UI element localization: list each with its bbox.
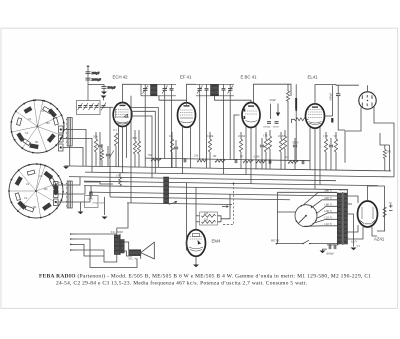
resistor R diode load [239,139,242,152]
wire EM4 cathode [195,256,197,264]
terminal lead 3 [71,243,77,245]
tube EM4 tuning indicator envelope [187,230,206,257]
resistor R1 divider [279,139,282,152]
capacitor C k2 [174,147,178,149]
capacitor 200pF [86,72,91,74]
electrolytic C filter [389,204,393,210]
svg-text:1M: 1M [204,212,208,215]
IF transformer T1 bottom rail [141,95,176,97]
T2 trimmer right [228,84,234,96]
wire Ra b [269,149,271,169]
wire R AF load bottom [287,101,289,161]
wire S2 row3 lead [58,192,90,202]
svg-text:125 V: 125 V [324,215,333,219]
resistor R AVC1 [151,158,161,161]
junction selector contact [310,225,312,227]
resistor R k1 [133,141,136,154]
wire S2 row1 lead [58,177,80,185]
wire R k1 top [134,130,136,141]
svg-text:200pF: 200pF [92,71,100,75]
drum S1 coil L7 [17,133,24,142]
speaker voice coil [129,250,141,256]
tube ECH42 envelope [113,103,132,127]
ground main bus [63,166,69,169]
wire EF41 plate to T2 [187,84,197,103]
wire heater run [341,190,348,193]
socket pins [362,95,373,107]
junction selector contact [316,212,318,214]
wire S1 row1 lead [63,130,86,167]
junction selector contact [296,220,298,222]
capacitor C osc pair [89,193,93,195]
drum S2 spoke 3 [36,191,59,205]
wire R ant bot [115,146,117,167]
signal arrow f [222,206,229,208]
drum S2 spoke 7 [19,170,36,191]
wire R sg2 b [209,152,211,168]
wire to 500pF cap [88,85,104,87]
drum S2 coil L7 [15,193,20,201]
wire Rop a [101,144,103,150]
ground osc b [102,217,108,220]
svg-text:M2: M2 [44,187,48,191]
ground PSU centre tap [351,248,357,251]
wire C mains stub [329,244,331,245]
wire ECH42 osc grid corner [132,116,153,178]
wire socket right drop [374,107,394,177]
wire HT center tap [348,214,354,247]
wire R 1M top [119,173,121,178]
wire C k1 wire2 [99,148,101,167]
wire Cc a [294,138,296,144]
wire Cc b [294,148,296,170]
wire speaker cone return [140,253,142,259]
svg-text:C3: C3 [39,174,43,178]
wire 600pF top [337,85,339,94]
drum S2 coil L6 [18,201,26,209]
svg-text:100k: 100k [207,134,214,138]
ground below 500pF [101,92,107,95]
wire ECH42 g3 corner [132,111,156,173]
resistor R surge [383,207,386,217]
resistor R stopper [334,139,337,152]
drum S1 coil L2 [48,109,56,117]
wire osc link pair [84,182,113,184]
svg-text:1M: 1M [263,134,268,138]
wire terminal 2 lead [77,239,138,268]
power transformer primary winding [337,193,341,244]
wire T1 left leg [140,84,142,96]
wire antenna bus into drum S1 [87,85,89,101]
wire R sg1 bot [138,154,140,167]
svg-text:1M: 1M [204,218,208,221]
drum S2 coil L8 [15,177,22,186]
T2 capacitor right [222,84,226,96]
IF transformer T2 bottom rail [196,95,234,97]
drum S1 coil L3 [53,117,58,125]
resistor R osc padder [100,150,103,160]
wire R osc top [95,132,97,139]
junction padder [90,191,92,193]
svg-text:5000: 5000 [88,198,94,201]
wire AVC bus [85,172,394,177]
wire EM4 R feed [221,194,230,219]
svg-text:2000pF: 2000pF [92,77,102,81]
wire EF41 screen drop [190,126,192,168]
junction switch contact a [302,243,303,244]
junction mains terminal [276,243,278,245]
junction dashed tap [233,183,235,185]
antenna terminal [87,66,90,69]
svg-text:C3: C3 [41,109,45,113]
wire Ck3 b [330,148,332,170]
wire rectifier filament a [348,227,364,239]
capacitor C byp4 [302,160,304,164]
wire Cdet b [261,148,263,169]
AVC arrow head [276,113,280,117]
tube ECH42 electrodes [116,105,130,124]
drum S1 spoke 7 [16,111,38,126]
bandswitch S1 wafer shaft [66,118,72,147]
capacitor AF bypass [275,122,279,124]
svg-text:C1: C1 [26,182,30,186]
junction selector contact [301,205,303,207]
drum S2 coil L3 [54,186,58,194]
electrolytic cathode capacitor EL41 [331,118,333,123]
tube EBC41 electrodes [244,105,258,122]
drum S2 coil L1 [44,171,53,179]
potentiometer P1 wiper arrow [169,201,177,204]
junction electrolytic [295,109,297,111]
svg-text:110 V: 110 V [324,222,333,226]
trimmer CT3 [89,103,94,110]
wire T2 leg c [223,96,225,174]
tube EL41 electrodes [308,106,322,124]
AVC arrow lead [277,104,279,114]
wire terminal 3 lead [77,244,105,256]
wire EM4 R left b [196,221,200,223]
wire antenna down lead [87,70,89,85]
svg-text:24-54, C2 29-84 e C3 13,5-23.: 24-54, C2 29-84 e C3 13,5-23. Media freq… [56,279,307,286]
wire Rdl b [240,152,242,169]
wire socket left drop [345,108,361,163]
T2 capacitor left [205,84,209,96]
capacitor C padder [106,154,110,156]
wire C osc b [90,196,92,199]
padder capacitor box [85,196,99,208]
wire Rdl a [240,132,242,139]
wire ground bus [65,166,392,171]
wire rectifier filament b [372,227,377,236]
wire EBC41 diode drop [245,127,247,175]
resistor R det [256,160,266,163]
wire bus 8 partial [127,203,232,205]
coil drum S2 outline [9,164,63,218]
wire C k2 a [175,140,177,146]
wire right edge corner [380,133,389,145]
wire S2 row2 lead [58,186,85,194]
tube AZ41 electrodes [360,207,375,224]
trimmer CT5 [101,103,106,111]
svg-text:50k: 50k [93,135,98,139]
wire grid stopper left [292,119,295,123]
svg-text:25k: 25k [194,155,199,158]
wire Rs b [335,152,337,170]
mains switch [303,240,337,243]
svg-text:0,1: 0,1 [286,156,290,159]
drum S1 spoke 5 [22,127,37,149]
svg-text:EL41: EL41 [308,75,319,80]
wire HT bus [69,177,336,181]
wire EM4 grid feed [195,187,197,229]
wire mains lead [277,243,304,245]
output transformer T.U. primary winding [114,235,119,255]
tube AZ41 rectifier envelope [358,201,378,227]
drum S1 spoke 8 [34,100,38,126]
capacitor C coup [293,145,297,147]
coil drum S1 outline [11,100,64,153]
wire Rop b [101,160,103,166]
junction speaker terminal 4 [70,249,72,251]
wire bus 4 [84,181,378,186]
svg-text:0,5M: 0,5M [254,155,260,158]
drum S1 spoke 1 [38,101,44,127]
wire ECH42 screen drop [122,126,124,172]
svg-text:170: 170 [323,134,328,138]
capacitor C byp1 [184,158,186,162]
resistor grid stopper EL41 [295,118,306,121]
capacitor 2000pF [86,78,91,80]
svg-text:FEBA RADIO (Partenoni) - Modd.: FEBA RADIO (Partenoni) - Modd. E/505 B, … [39,272,371,279]
svg-text:0,1: 0,1 [240,155,244,158]
wire component rail [145,158,310,161]
resistor R AVC4 [243,160,253,163]
potentiometer P1 volume control [164,177,169,204]
drum S1 spoke 6 [12,127,38,133]
wire grid stopper to EL41 [306,118,309,120]
svg-text:M1: M1 [35,140,39,144]
coil drum S1 hub [36,125,38,127]
resistor R k EL41 [324,139,327,152]
drum S2 spoke 6 [9,190,36,192]
resistor R2 divider [283,136,286,149]
wire terminal 4 lead [77,250,105,256]
wire Ra a [269,130,271,136]
wire EBC41 grid stub [234,115,240,160]
junction speaker terminal 3 [70,244,72,246]
wire R k2 b [171,152,173,168]
resistor R sg1 [137,141,140,154]
wire R sg2 a [209,132,211,139]
wire HT secondary top [348,196,359,203]
drum S2 sector labels [24,174,48,209]
wire TU primary top [117,203,128,235]
tube EBC41 envelope [242,103,260,128]
wire HT secondary bottom [348,225,359,232]
wire tap 220 V [311,200,337,208]
svg-text:100pF 50pF: 100pF 50pF [92,202,105,205]
wire C mains gnd [323,249,328,250]
svg-text:1000pF: 1000pF [326,253,335,256]
capacitor C k1 [98,145,102,147]
drum S1 coil L4 [47,134,55,142]
capacitor AVC 50pF lead [270,104,272,120]
wire right edge drop [388,145,390,171]
tube EF41 electrodes [180,103,193,123]
svg-text:EF 41: EF 41 [180,75,192,80]
wire Rs a [335,132,337,139]
wire R 1M bot [119,185,121,188]
wire ECH42 osc drop [126,126,128,158]
resistor R AVC3 [215,159,225,162]
trimmer CT2 [83,103,88,110]
wire C k2 b [175,150,177,168]
drum S2 spoke 1 [36,166,45,191]
wire tap 160 V [317,206,338,213]
drum S2 coil L9 [27,170,35,175]
wire cap to ground [103,88,105,91]
wire T2 leg a [199,96,201,159]
junction selector contact [311,205,313,207]
wire Cp a [107,146,109,153]
drum S1 spoke 2 [38,115,62,126]
wire Rg b [265,152,267,169]
wire EM4 side [187,183,190,250]
wire electrolytic top [295,84,297,98]
T1 trimmer right [162,84,168,96]
wire R AF load top [287,84,289,91]
svg-text:500pF: 500pF [108,86,116,90]
coil drum S2 hub [35,190,37,192]
T1 trimmer left [143,84,149,96]
svg-text:50k: 50k [148,154,153,157]
svg-text:10000: 10000 [273,125,280,128]
wire bus 7 partial [110,197,290,200]
drum S1 coil L9 [24,107,32,113]
resistor pair box EM4 [200,212,218,225]
electrolytic filter capacitor [295,98,297,109]
voltage selector arm [298,216,306,224]
drum S2 spoke 8 [36,164,41,191]
wire R load top [384,145,386,150]
speaker cone [141,242,155,259]
drum S1 spoke 4 [38,127,47,152]
wire R sg1 top [138,130,140,141]
junction speaker terminal 1 [70,233,72,235]
drum S2 rim contacts [8,163,64,218]
wire EF41 cathode drop [182,126,184,174]
wire selector left feed [278,192,338,212]
bandswitch S1 contact comb [59,126,64,151]
wire EBC41 cathode drop [250,128,252,184]
drum S2 spoke 2 [36,182,61,191]
power transformer secondary winding [344,193,348,244]
wire EL41 screen link [325,115,333,117]
drum S1 coil L6 [23,139,31,146]
tube EL41 envelope [306,104,325,128]
wire electrolytic bottom [295,109,297,160]
power transformer core [341,192,344,245]
resistor R ant [114,133,117,146]
trimmer CT4 [94,103,99,110]
wire S1 shaft lead [69,146,71,166]
wire R osc bot [95,152,97,166]
resistor R load [383,150,386,159]
resistor R anode EBC [268,136,271,149]
trimmer osc [109,151,114,159]
output transformer T.U. secondary winding [121,240,125,254]
wire C osc a [90,186,92,192]
ground at trimmer bank [101,96,107,99]
svg-text:600pF: 600pF [329,93,333,101]
drum S2 spoke 4 [36,191,41,218]
svg-text:300: 300 [132,136,137,140]
svg-text:5000pF: 5000pF [263,125,271,128]
shielded lead to EM4 resistors (dashed) [222,183,234,224]
wire Cp b [107,157,109,167]
wire T1 to EF41 grid [159,96,187,103]
svg-text:1M: 1M [387,151,391,154]
resistor R sg2 [208,139,211,152]
wire Rd2 a [284,130,286,136]
wire osc gnd a [80,202,82,212]
drum S1 sector labels [25,109,50,144]
wire osc gnd b [104,197,106,215]
wire T2 secondary to EBC41 [215,96,252,103]
wire Rd1 b [280,152,282,169]
wire 600pF bottom [338,96,345,130]
wire ECH42 grid [100,106,113,108]
wire Rk3 a [325,132,327,139]
wire Rd1 a [280,132,282,139]
IF transformer T2 top rail [196,83,234,85]
tube socket top view (pilot/valve socket) [359,92,376,109]
svg-text:EM4: EM4 [212,239,221,244]
wire heater bus [84,186,341,190]
wire EL41 grid drop [309,127,311,169]
capacitor C k EL41 [329,145,333,147]
wire long drop A [130,96,132,203]
wire socket feed [332,85,334,116]
drum S1 coil L1 [43,106,52,113]
wire EM4 R left a [196,215,200,217]
wire EL41 screen drop [319,127,321,185]
junction speaker terminal 2 [70,238,72,240]
wire bus 6 [89,192,341,196]
wire S1 row3 lead [63,148,83,167]
capacitor C byp3 [269,159,271,163]
resistor R AVC2 [197,159,207,162]
svg-text:50: 50 [334,134,338,138]
wire Rg a [265,132,267,139]
wire socket top stub [367,85,369,92]
wire B+ takeoff [368,186,385,201]
wire R load bot [384,159,386,171]
wire T2 leg d [229,96,231,160]
drum S1 spoke 3 [38,127,63,136]
wire ECH42 cathode drop [118,126,120,167]
terminal lead 2 [71,238,77,240]
capacitor C byp2 [235,159,237,163]
drum S1 coil L5 [30,144,39,149]
svg-text:6,3 V: 6,3 V [351,239,358,243]
resistor R EM4 a [202,214,216,217]
junction selector hub [305,215,307,217]
capacitor C mains b [334,245,336,249]
svg-text:160 V: 160 V [324,202,333,206]
svg-text:AZ41: AZ41 [374,237,385,242]
drum S2 coil L4 [43,203,52,211]
